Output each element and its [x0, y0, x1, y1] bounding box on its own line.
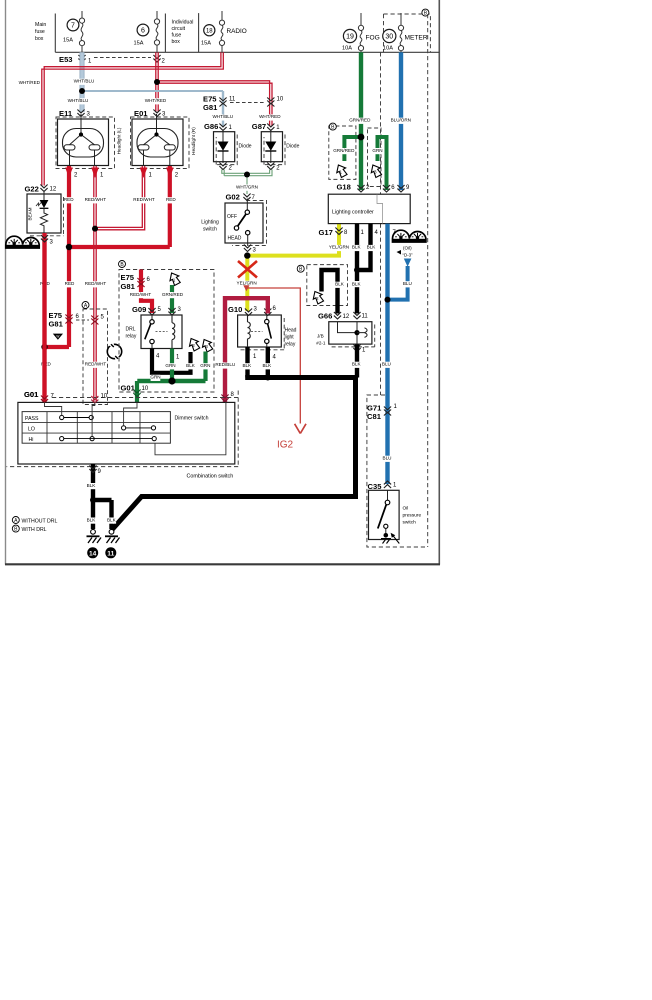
- svg-text:METER: METER: [405, 35, 428, 42]
- svg-text:RADIO: RADIO: [227, 28, 247, 35]
- svg-text:RED: RED: [166, 197, 176, 202]
- svg-text:G09: G09: [132, 305, 146, 314]
- svg-text:fuse: fuse: [35, 29, 45, 35]
- svg-text:15A: 15A: [134, 41, 144, 47]
- svg-text:WHT/GRN: WHT/GRN: [236, 184, 258, 189]
- svg-text:J/B: J/B: [317, 334, 324, 339]
- svg-text:box: box: [35, 36, 44, 42]
- svg-text:GRN/RED: GRN/RED: [162, 292, 184, 297]
- svg-text:Diode: Diode: [239, 144, 252, 150]
- svg-text:3: 3: [374, 170, 377, 175]
- svg-text:fuse: fuse: [172, 33, 182, 39]
- svg-text:FOG: FOG: [366, 35, 380, 42]
- svg-text:WHT/RED: WHT/RED: [259, 114, 281, 119]
- svg-text:RED/WHT: RED/WHT: [85, 362, 107, 367]
- svg-text:(Oil): (Oil): [403, 246, 412, 251]
- svg-text:RED/WHT: RED/WHT: [130, 292, 152, 297]
- svg-text:14: 14: [89, 550, 97, 557]
- svg-text:WHT/RED: WHT/RED: [145, 98, 167, 103]
- svg-text:C35: C35: [368, 482, 383, 491]
- svg-text:E53: E53: [59, 55, 73, 64]
- svg-text:11: 11: [362, 314, 369, 320]
- svg-text:Combination switch: Combination switch: [187, 474, 234, 480]
- svg-text:G22: G22: [25, 185, 39, 194]
- svg-text:box: box: [172, 39, 181, 45]
- svg-text:6: 6: [141, 28, 145, 35]
- svg-text:10: 10: [142, 386, 149, 392]
- svg-text:7: 7: [71, 23, 75, 30]
- svg-text:BLK: BLK: [352, 362, 362, 367]
- svg-text:WHT/RED: WHT/RED: [19, 80, 41, 85]
- svg-text:RED/WHT: RED/WHT: [133, 197, 155, 202]
- svg-text:Headlight (L): Headlight (L): [117, 127, 122, 154]
- svg-text:circuit: circuit: [172, 26, 186, 32]
- svg-text:GRN: GRN: [165, 363, 175, 368]
- svg-text:BLU: BLU: [382, 362, 391, 367]
- svg-text:3: 3: [205, 344, 208, 349]
- svg-text:G01: G01: [121, 384, 136, 393]
- svg-text:30: 30: [385, 34, 393, 41]
- svg-text:10: 10: [277, 97, 284, 103]
- svg-text:2: 2: [192, 343, 195, 348]
- svg-text:G81: G81: [121, 282, 136, 291]
- svg-text:BLK: BLK: [107, 517, 117, 522]
- svg-text:pressure: pressure: [403, 513, 422, 519]
- svg-text:1: 1: [340, 170, 343, 175]
- svg-text:10: 10: [101, 394, 108, 400]
- svg-text:11: 11: [229, 97, 236, 103]
- svg-text:G10: G10: [228, 305, 242, 314]
- svg-text:LO: LO: [28, 427, 35, 433]
- svg-text:E75: E75: [121, 273, 135, 282]
- svg-text:YEL/GRN: YEL/GRN: [329, 245, 349, 250]
- svg-text:19: 19: [346, 34, 354, 41]
- svg-text:BLK: BLK: [242, 363, 252, 368]
- svg-text:18: 18: [206, 28, 213, 34]
- svg-text:Individual: Individual: [172, 20, 194, 26]
- svg-text:Head: Head: [285, 328, 297, 334]
- svg-text:GRN/RED: GRN/RED: [333, 148, 355, 153]
- svg-text:Hi: Hi: [29, 437, 34, 443]
- svg-text:Lighting: Lighting: [201, 220, 219, 226]
- svg-text:light: light: [285, 335, 295, 341]
- svg-text:WITH DRL: WITH DRL: [22, 527, 47, 533]
- svg-text:G81: G81: [49, 320, 64, 329]
- svg-text:Oil: Oil: [403, 506, 409, 512]
- svg-text:Dimmer switch: Dimmer switch: [175, 416, 209, 422]
- svg-text:G17: G17: [319, 228, 333, 237]
- svg-text:RED: RED: [65, 281, 75, 286]
- svg-text:Lighting controller: Lighting controller: [332, 210, 374, 216]
- svg-text:relay: relay: [285, 342, 296, 348]
- svg-text:HEAD: HEAD: [228, 236, 242, 242]
- svg-text:relay: relay: [126, 334, 137, 340]
- svg-text:15A: 15A: [63, 38, 73, 44]
- svg-text:PASS: PASS: [25, 416, 39, 422]
- svg-text:10A: 10A: [383, 46, 393, 52]
- svg-text:BLK: BLK: [186, 363, 196, 368]
- svg-text:1: 1: [173, 278, 176, 283]
- svg-text:G66: G66: [318, 312, 332, 321]
- svg-text:RED/WHT: RED/WHT: [85, 197, 107, 202]
- svg-text:“D-3”: “D-3”: [403, 253, 414, 258]
- svg-text:BLK: BLK: [262, 363, 272, 368]
- svg-text:Main: Main: [35, 22, 46, 28]
- svg-text:G81: G81: [203, 103, 218, 112]
- svg-text:OFF: OFF: [227, 214, 237, 220]
- svg-text:15A: 15A: [201, 41, 211, 47]
- svg-text:BLU: BLU: [403, 281, 412, 286]
- svg-text:GRN: GRN: [200, 363, 210, 368]
- svg-text:WITHOUT DRL: WITHOUT DRL: [22, 518, 58, 524]
- svg-text:#2-1: #2-1: [316, 341, 326, 346]
- svg-text:Diode: Diode: [286, 144, 299, 150]
- svg-text:BLK: BLK: [87, 483, 97, 488]
- svg-text:IG2: IG2: [277, 440, 294, 451]
- svg-text:GRN: GRN: [372, 148, 382, 153]
- svg-text:G18: G18: [337, 183, 351, 192]
- svg-text:YEL/GRN: YEL/GRN: [237, 281, 257, 286]
- svg-text:11: 11: [107, 550, 114, 557]
- svg-text:switch: switch: [403, 520, 417, 526]
- svg-text:2: 2: [316, 296, 319, 301]
- svg-text:BLK: BLK: [335, 282, 345, 287]
- svg-text:12: 12: [343, 314, 350, 320]
- svg-text:WHT/BLU: WHT/BLU: [74, 79, 95, 84]
- svg-text:BLK: BLK: [352, 245, 362, 250]
- svg-text:BLU/ORN: BLU/ORN: [391, 118, 411, 123]
- svg-text:G01: G01: [24, 390, 39, 399]
- svg-text:GRN/RED: GRN/RED: [349, 118, 371, 123]
- svg-text:C81: C81: [367, 412, 382, 421]
- svg-text:BLK: BLK: [367, 245, 377, 250]
- svg-text:10A: 10A: [342, 46, 352, 52]
- svg-text:DRL: DRL: [126, 327, 136, 333]
- svg-text:RED: RED: [64, 197, 74, 202]
- svg-text:GRN: GRN: [150, 375, 160, 380]
- svg-text:G87: G87: [252, 122, 266, 131]
- svg-text:switch: switch: [203, 227, 217, 233]
- svg-text:BLK: BLK: [352, 282, 362, 287]
- svg-text:RED/WHT: RED/WHT: [85, 281, 107, 286]
- svg-text:G02: G02: [226, 193, 240, 202]
- svg-text:WHT/BLU: WHT/BLU: [68, 98, 89, 103]
- svg-text:BLK: BLK: [87, 517, 97, 522]
- svg-text:12: 12: [50, 187, 57, 193]
- svg-text:WHT/BLU: WHT/BLU: [212, 114, 233, 119]
- svg-text:W: W: [56, 334, 59, 338]
- svg-text:BLU: BLU: [383, 456, 392, 461]
- svg-text:BEAM: BEAM: [28, 207, 33, 220]
- svg-text:RED/BLU: RED/BLU: [215, 362, 235, 367]
- svg-text:Headlight (R): Headlight (R): [191, 127, 196, 155]
- svg-text:G86: G86: [204, 122, 218, 131]
